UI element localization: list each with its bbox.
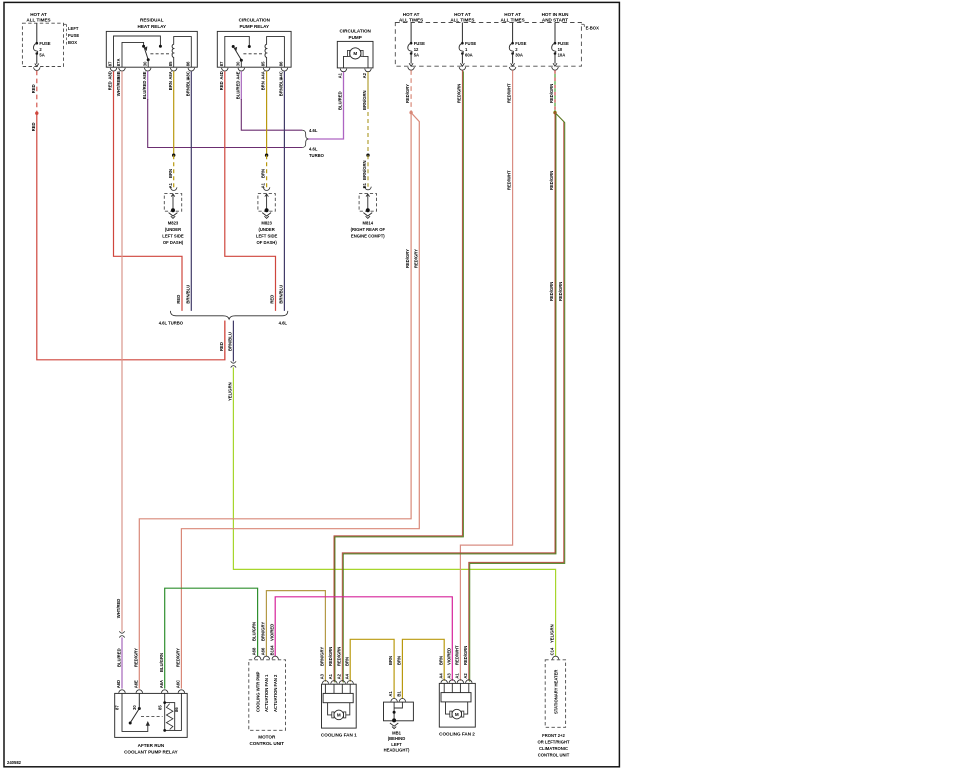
svg-text:A1: A1 — [338, 72, 343, 78]
svg-text:(UNDER: (UNDER — [258, 227, 274, 232]
svg-text:A6D: A6D — [116, 680, 121, 688]
connectors below residual heat relay — [110, 68, 117, 71]
svg-text:RED/GRY: RED/GRY — [405, 249, 410, 268]
svg-text:RED/WHT: RED/WHT — [507, 170, 512, 190]
svg-text:ALL TIMES: ALL TIMES — [26, 17, 50, 22]
svg-text:FUSE: FUSE — [465, 41, 476, 46]
residual heat relay box — [106, 31, 197, 67]
svg-text:RED: RED — [31, 84, 36, 93]
svg-text:A2: A2 — [362, 72, 367, 78]
svg-text:A68: A68 — [252, 647, 257, 655]
junction on BRN wire (circ) — [265, 154, 268, 157]
svg-text:WHT/RED: WHT/RED — [116, 77, 121, 97]
svg-text:HOT AT: HOT AT — [30, 12, 47, 17]
junction node on RED wire — [35, 112, 38, 115]
svg-text:RED/WHT: RED/WHT — [455, 645, 460, 665]
svg-text:A6C: A6C — [176, 680, 181, 688]
svg-text:85: 85 — [157, 705, 162, 710]
svg-text:CIRCULATION: CIRCULATION — [239, 17, 271, 22]
svg-text:LEFT SIDE: LEFT SIDE — [162, 234, 184, 239]
svg-text:RED/WHT: RED/WHT — [507, 83, 512, 103]
svg-text:A6E: A6E — [133, 680, 138, 688]
svg-text:60A: 60A — [465, 53, 473, 58]
svg-text:A4A: A4A — [261, 71, 266, 79]
svg-text:RED/GRY: RED/GRY — [413, 249, 418, 268]
svg-text:HOT AT: HOT AT — [504, 12, 521, 17]
svg-text:240582: 240582 — [7, 760, 22, 765]
fan 1 motor leads — [328, 703, 350, 715]
svg-text:ACTUATION FAN 1: ACTUATION FAN 1 — [264, 674, 269, 712]
svg-text:RED/GRN: RED/GRN — [549, 282, 554, 301]
svg-text:A6A: A6A — [159, 680, 164, 688]
ground M814 right rear of engine compt — [359, 194, 376, 212]
junction on BRN wire — [172, 154, 175, 157]
svg-text:ALL TIMES: ALL TIMES — [501, 17, 525, 22]
svg-text:ACTUATION FAN 2: ACTUATION FAN 2 — [273, 674, 278, 712]
svg-text:BRN: BRN — [388, 656, 393, 665]
connector at ground M823 (right) — [263, 187, 270, 190]
svg-text:BLU/GRN: BLU/GRN — [252, 622, 257, 641]
circulation pump box — [337, 41, 373, 68]
svg-text:OF DASH): OF DASH) — [163, 240, 184, 245]
svg-text:LEFT: LEFT — [68, 26, 79, 31]
relay contact path pin 87 — [114, 36, 161, 67]
cooling fan 1 box — [322, 684, 357, 728]
fuse 12 5A — [410, 23, 412, 44]
wire BLU/RED from relay 30 to 4.6L TURBO brace — [147, 71, 149, 100]
left fuse box (dashed) — [22, 23, 63, 66]
svg-text:LEFT SIDE: LEFT SIDE — [256, 234, 278, 239]
svg-text:RED/GRY: RED/GRY — [133, 648, 138, 667]
svg-text:M823: M823 — [261, 221, 272, 226]
svg-text:30A: 30A — [515, 53, 523, 58]
connector below left fuse box — [34, 67, 41, 70]
svg-text:A2: A2 — [336, 673, 341, 679]
svg-text:HOT AT: HOT AT — [454, 12, 471, 17]
wire BRN/BLU below merge brace — [232, 321, 234, 362]
wire BRN dashed to ground M823 right — [266, 155, 268, 187]
svg-text:C14: C14 — [550, 647, 555, 655]
svg-text:M: M — [337, 713, 341, 718]
svg-text:YEL/GRN: YEL/GRN — [228, 382, 233, 401]
svg-text:B1: B1 — [397, 691, 402, 697]
svg-text:FUSE: FUSE — [558, 41, 569, 46]
svg-text:ALL TIMES: ALL TIMES — [399, 17, 423, 22]
wire RED from circ relay 87 — [225, 71, 276, 311]
wire RED from relay 87 — [114, 71, 183, 311]
fan 1 internal bus — [325, 684, 350, 693]
svg-text:HOT IN RUN: HOT IN RUN — [542, 12, 569, 17]
svg-text:VIO/RED: VIO/RED — [269, 624, 274, 641]
svg-text:COOLING FAN 1: COOLING FAN 1 — [321, 732, 357, 737]
fuse 1 60A — [461, 23, 463, 44]
svg-text:A66: A66 — [261, 647, 266, 655]
svg-text:HEAT RELAY: HEAT RELAY — [138, 24, 167, 29]
svg-text:CLIMATRONIC: CLIMATRONIC — [539, 746, 568, 751]
svg-text:A1: A1 — [455, 673, 460, 679]
svg-text:M: M — [455, 712, 459, 717]
svg-text:M823: M823 — [168, 221, 179, 226]
junction on BRN/GRN wire — [366, 154, 369, 157]
svg-text:CONTROL UNIT: CONTROL UNIT — [538, 753, 570, 758]
svg-text:4.6L TURBO: 4.6L TURBO — [159, 321, 184, 326]
svg-text:87: 87 — [219, 61, 224, 66]
connectors above cooling fan 1 — [322, 681, 329, 684]
wire BRN from circ relay 85 — [266, 71, 268, 155]
svg-text:BRN: BRN — [397, 656, 402, 665]
ground M823 under-dash (right) — [258, 194, 275, 212]
svg-text:BLU/RED: BLU/RED — [235, 81, 240, 100]
svg-text:YEL/GRN: YEL/GRN — [550, 624, 555, 643]
svg-text:86: 86 — [185, 61, 190, 66]
wire RED/GRY branch A to after-run relay A6E — [139, 113, 411, 689]
svg-text:BRN/BLU: BRN/BLU — [279, 285, 284, 304]
svg-text:ENGINE COMPT): ENGINE COMPT) — [351, 234, 385, 239]
ground MB1 box — [384, 702, 414, 721]
relay contact path pin 87A — [122, 42, 144, 67]
svg-text:OR LEFT/RIGHT: OR LEFT/RIGHT — [537, 740, 570, 745]
wire YEL/GRN from splice to stationary heater — [233, 367, 555, 656]
svg-text:A4: A4 — [438, 673, 443, 679]
svg-text:85: 85 — [168, 61, 173, 66]
svg-text:RED: RED — [108, 81, 113, 90]
connectors above after-run relay — [119, 690, 126, 693]
svg-text:BLU/GRN: BLU/GRN — [159, 653, 164, 672]
cooling fan 2 box — [439, 683, 475, 727]
relay switch blade 30 (circ) — [234, 47, 242, 60]
svg-text:CIRCULATION: CIRCULATION — [340, 28, 372, 33]
svg-text:BOX: BOX — [68, 40, 77, 45]
wire RED/GRN branch B to cooling fan 2 A2 — [469, 113, 564, 681]
svg-text:OF DASH): OF DASH) — [256, 240, 277, 245]
ground M823 under-dash (left) — [164, 194, 181, 212]
svg-text:BLU/RED: BLU/RED — [117, 648, 122, 667]
svg-text:(RIGHT REAR OF: (RIGHT REAR OF — [351, 227, 386, 232]
svg-text:86: 86 — [279, 61, 284, 66]
connector at ground M814 — [365, 187, 372, 190]
svg-text:30: 30 — [235, 61, 240, 66]
after-run relay pin 86 path — [175, 693, 182, 730]
svg-text:MOTOR: MOTOR — [258, 734, 276, 739]
svg-text:B104: B104 — [269, 645, 274, 656]
wire BRN/GRN from pump A2 — [367, 72, 369, 105]
svg-text:FUSE: FUSE — [39, 41, 50, 46]
svg-text:A1: A1 — [388, 691, 393, 697]
svg-text:AND START: AND START — [542, 17, 568, 22]
brace 4.6L / 4.6L TURBO (engine split) — [302, 130, 308, 147]
svg-text:RESIDUAL: RESIDUAL — [140, 17, 164, 22]
wire BRN cooling fan 2 A4 to ground MB1 — [402, 639, 444, 698]
svg-text:FUSE: FUSE — [68, 33, 79, 38]
fuse 2 30A — [512, 23, 514, 44]
svg-text:FRONT 2+2: FRONT 2+2 — [542, 733, 565, 738]
svg-text:85: 85 — [261, 61, 266, 66]
svg-text:RED/GRN: RED/GRN — [336, 647, 341, 666]
svg-text:12: 12 — [414, 47, 419, 52]
svg-text:ALL TIMES: ALL TIMES — [450, 17, 474, 22]
svg-text:LEFT: LEFT — [391, 742, 402, 747]
wire VIO/RED motor control unit B104 to cooling fan 2 A3 — [275, 597, 452, 681]
svg-text:A8D: A8D — [108, 71, 113, 79]
svg-text:30: 30 — [142, 61, 147, 66]
svg-text:A4: A4 — [344, 673, 349, 679]
splice WHT/RED to BLU/RED — [119, 631, 124, 633]
svg-text:RED: RED — [219, 81, 224, 90]
svg-text:FUSE: FUSE — [414, 41, 425, 46]
wire RED/GRY dashed from fuse 12 — [410, 70, 412, 112]
svg-text:87: 87 — [115, 705, 120, 710]
connectors below circulation pump — [340, 69, 347, 72]
svg-text:BRN: BRN — [261, 81, 266, 90]
fuse 10 10A — [554, 23, 556, 44]
svg-text:VIO/RED: VIO/RED — [446, 648, 451, 665]
svg-text:BRN/BLU: BRN/BLU — [185, 285, 190, 304]
svg-text:BRN: BRN — [261, 169, 266, 178]
wire RED/GRN branch A to cooling fan 1 A2 — [342, 113, 555, 682]
svg-text:RED/GRN: RED/GRN — [558, 282, 563, 301]
svg-text:M: M — [353, 51, 357, 56]
svg-text:COOLING FAN 2: COOLING FAN 2 — [439, 732, 475, 737]
circulation pump relay box — [217, 31, 291, 67]
svg-text:RED/GRN: RED/GRN — [549, 84, 554, 103]
svg-text:4.6L: 4.6L — [309, 146, 318, 151]
wire RED/GRN dashed from fuse 10 — [554, 70, 556, 112]
svg-text:RED/GRY: RED/GRY — [405, 84, 410, 103]
wire RED/GRN from fuse 1 to cooling fan 1 A1 — [334, 70, 462, 681]
wire BRN cooling fan 1 A4 to ground MB1 — [350, 639, 394, 698]
svg-text:BRN/GRY: BRN/GRY — [261, 622, 266, 641]
svg-text:PUMP RELAY: PUMP RELAY — [239, 24, 269, 29]
pump motor leads — [344, 56, 348, 68]
svg-text:10A: 10A — [558, 53, 566, 58]
junction on fuse 10 RED/GRN — [553, 111, 556, 114]
fan 2 motor leads — [446, 702, 468, 714]
after run coolant pump relay box — [115, 693, 188, 737]
svg-text:HEADLIGHT): HEADLIGHT) — [384, 748, 410, 753]
splice connector BRN/BLU to YEL/GRN — [231, 361, 236, 363]
fuse 2 5A (left fuse box) — [36, 23, 38, 43]
svg-text:BLU/RED: BLU/RED — [338, 91, 343, 110]
svg-text:RED/GRN: RED/GRN — [463, 646, 468, 665]
relay switch blade 30 — [144, 47, 148, 60]
svg-text:BRN: BRN — [168, 81, 173, 90]
svg-text:4.6L: 4.6L — [279, 321, 288, 326]
svg-text:30: 30 — [132, 705, 137, 710]
E-BOX (dashed) — [395, 23, 581, 67]
svg-text:A3: A3 — [446, 673, 451, 679]
connector at ground M823 (left) — [170, 187, 177, 190]
svg-text:RED/GRY: RED/GRY — [176, 648, 181, 667]
svg-text:BRN/BLU: BRN/BLU — [185, 77, 190, 96]
wire RED solid down-right to 4.6L pair — [37, 113, 225, 360]
svg-text:A1: A1 — [328, 673, 333, 679]
label E-BOX — [581, 23, 584, 25]
svg-text:STATIONARY HEATER: STATIONARY HEATER — [553, 670, 558, 714]
motor control unit box — [249, 660, 286, 731]
svg-text:RED: RED — [270, 295, 275, 304]
MB1 internal ground path — [394, 702, 402, 720]
svg-text:RED: RED — [176, 295, 181, 304]
wire BLU/GRN after-run A6A to motor control unit A68 — [165, 588, 258, 688]
svg-text:A3: A3 — [320, 673, 325, 679]
border frame — [4, 2, 619, 766]
svg-text:A8E: A8E — [142, 71, 147, 79]
wire BLU/RED from pump A1 down to 4.6L brace point — [308, 72, 344, 139]
after-run relay contact path pin 87 — [122, 693, 148, 731]
wire BLU/RED into after-run relay A6D — [121, 637, 123, 688]
relay dashed link to coil — [150, 53, 171, 55]
svg-text:BRN/GRN: BRN/GRN — [362, 90, 367, 110]
svg-text:FUSE: FUSE — [515, 41, 526, 46]
svg-text:BRN: BRN — [168, 169, 173, 178]
label LEFT FUSE BOX — [64, 23, 67, 25]
svg-text:COOLING WTR PMP: COOLING WTR PMP — [255, 671, 260, 712]
connectors above MB1 — [391, 699, 398, 702]
svg-text:A8A: A8A — [168, 71, 173, 79]
svg-text:RED: RED — [219, 342, 224, 351]
svg-text:BRN/GRY: BRN/GRY — [320, 647, 325, 666]
wire RED dashed from fuse 2 to junction — [36, 71, 38, 113]
circulation pump motor M — [350, 48, 361, 59]
fan 2 motor — [452, 709, 462, 719]
svg-text:PUMP: PUMP — [349, 35, 362, 40]
svg-text:MB1: MB1 — [392, 730, 402, 735]
svg-text:87: 87 — [108, 61, 113, 66]
wire BRN/GRN dashed to ground M814 — [367, 155, 369, 187]
connectors below E-BOX — [408, 67, 415, 70]
svg-text:BRN/BLU: BRN/BLU — [228, 332, 233, 351]
svg-text:4.6L: 4.6L — [309, 128, 318, 133]
svg-text:A2: A2 — [463, 673, 468, 679]
svg-text:5A: 5A — [39, 53, 44, 58]
wire BRN from relay 85 — [173, 71, 175, 155]
svg-text:M814: M814 — [363, 221, 374, 226]
svg-text:5A: 5A — [414, 53, 419, 58]
svg-text:RED/GRN: RED/GRN — [457, 84, 462, 103]
svg-text:BRN: BRN — [438, 656, 443, 665]
svg-text:BRN/GRN: BRN/GRN — [362, 160, 367, 180]
svg-text:87A: 87A — [116, 59, 121, 67]
svg-text:BLU/RED: BLU/RED — [142, 81, 147, 100]
junction on RED/GRY — [409, 111, 412, 114]
svg-text:RED/GRN: RED/GRN — [549, 171, 554, 190]
connectors below circulation pump relay — [222, 68, 229, 71]
svg-text:BRN/BLU: BRN/BLU — [279, 77, 284, 96]
fan 1 motor — [334, 710, 344, 720]
svg-text:COOLANT PUMP RELAY: COOLANT PUMP RELAY — [124, 750, 178, 755]
svg-text:A4D: A4D — [219, 71, 224, 79]
stationary heater box (dashed) — [545, 660, 565, 728]
svg-text:RED/GRN: RED/GRN — [328, 647, 333, 666]
svg-text:10: 10 — [558, 47, 563, 52]
after-run relay dashed link — [141, 715, 163, 717]
relay dashed link to coil (circ) — [243, 53, 264, 55]
wire BRN/GRY motor control unit A66 to cooling fan 1 A3 — [266, 591, 325, 682]
wire BRN/BLU from circ relay 86 — [283, 71, 285, 311]
svg-text:HOT AT: HOT AT — [403, 12, 420, 17]
relay rest contact (circ) — [232, 45, 235, 48]
svg-text:AFTER RUN: AFTER RUN — [138, 743, 165, 748]
fan 2 internal bus — [444, 683, 469, 692]
svg-text:BRN: BRN — [344, 657, 349, 666]
wire RED below merge brace — [224, 321, 226, 360]
wire WHT/RED from relay 87A — [121, 71, 123, 631]
connectors above motor control unit — [254, 656, 261, 659]
wire RED/GRY branch B to after-run relay A6C — [181, 113, 419, 689]
svg-text:(UNDER: (UNDER — [165, 227, 181, 232]
merge brace 4.6L TURBO / 4.6L — [170, 311, 287, 319]
svg-text:CONTROL UNIT: CONTROL UNIT — [249, 741, 284, 746]
svg-text:A4E: A4E — [235, 71, 240, 79]
wire RED/WHT from fuse 2 to cooling fan 2 A1 — [460, 70, 512, 681]
wire BRN/BLU from relay 86 — [190, 71, 192, 311]
relay contact path pin 87 (circ) — [225, 36, 250, 67]
wire BLU/RED from circ relay 30 to 4.6L brace — [240, 71, 242, 100]
relay coil (circ) — [265, 37, 284, 68]
connector above stationary heater — [552, 656, 559, 659]
svg-text:TURBO: TURBO — [309, 153, 325, 158]
relay coil (residual) — [172, 37, 191, 68]
connectors above cooling fan 2 — [441, 680, 448, 683]
wire BRN dashed to ground M823 — [173, 155, 175, 187]
svg-text:WHT/RED: WHT/RED — [116, 599, 121, 619]
svg-text:RED: RED — [31, 122, 36, 131]
after-run relay coil — [165, 703, 175, 731]
svg-text:(BEHIND: (BEHIND — [388, 736, 405, 741]
after-run relay switch blade — [138, 707, 141, 710]
svg-text:E-BOX: E-BOX — [586, 25, 599, 30]
